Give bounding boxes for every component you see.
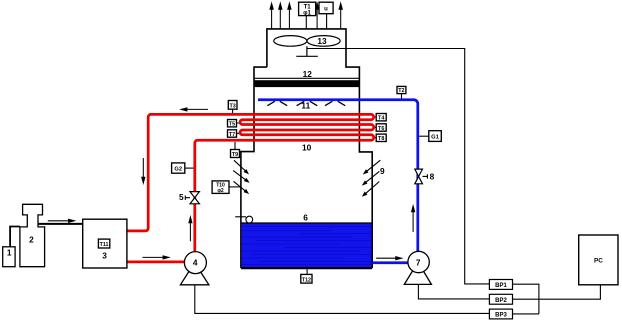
svg-text:u: u: [324, 7, 328, 13]
svg-text:φ2: φ2: [217, 188, 224, 194]
svg-text:5: 5: [179, 192, 184, 202]
svg-text:10: 10: [302, 143, 312, 153]
svg-text:7: 7: [416, 257, 421, 267]
svg-text:G1: G1: [431, 135, 440, 141]
svg-text:T2: T2: [398, 88, 404, 94]
svg-text:T7: T7: [229, 132, 235, 138]
svg-text:2: 2: [29, 234, 34, 244]
svg-text:9: 9: [380, 166, 385, 176]
svg-text:T11: T11: [100, 242, 109, 248]
svg-text:3: 3: [102, 250, 107, 260]
svg-text:12: 12: [303, 69, 313, 79]
svg-text:BP2: BP2: [495, 298, 507, 304]
svg-text:6: 6: [303, 212, 308, 222]
svg-text:T5: T5: [229, 122, 235, 128]
svg-text:11: 11: [301, 101, 310, 111]
svg-text:T9: T9: [232, 152, 238, 158]
svg-text:T3: T3: [229, 103, 235, 109]
svg-text:BP1: BP1: [495, 283, 507, 289]
svg-text:T6: T6: [378, 126, 384, 132]
svg-text:4: 4: [193, 257, 198, 267]
svg-text:T8: T8: [378, 136, 384, 142]
svg-text:1: 1: [7, 247, 12, 257]
svg-text:φ1: φ1: [303, 10, 311, 16]
svg-text:PC: PC: [594, 257, 603, 264]
svg-text:T4: T4: [378, 116, 384, 122]
svg-text:T12: T12: [302, 278, 311, 284]
svg-text:8: 8: [430, 172, 435, 182]
svg-text:13: 13: [317, 36, 327, 46]
svg-text:G2: G2: [174, 167, 182, 173]
svg-text:BP3: BP3: [495, 313, 507, 319]
